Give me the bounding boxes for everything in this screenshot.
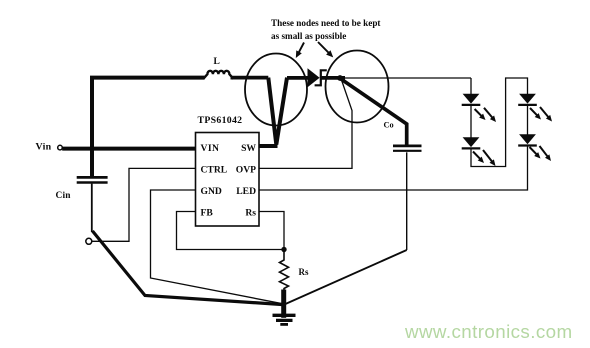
callout text — [271, 18, 381, 41]
wire: diode cathode to node — [321, 76, 345, 80]
wire: CTRL pin loop to open terminal — [92, 168, 196, 241]
wire: Rs pin to junction — [259, 212, 284, 250]
node junction dot — [337, 75, 343, 81]
svg-text:LED: LED — [236, 186, 256, 197]
wire: SW V loop — [268, 78, 287, 145]
wire: GND pin to ground — [151, 190, 284, 304]
wire: Co bottom drop — [406, 152, 408, 250]
svg-text:Cin: Cin — [56, 191, 72, 201]
wire: Cin bottom drop — [91, 184, 93, 232]
Vin terminal — [36, 141, 63, 152]
emphasis ellipse right (diode node) — [326, 51, 389, 123]
svg-text:These nodes need to be kept: These nodes need to be kept — [271, 18, 381, 28]
ground — [273, 290, 296, 325]
svg-text:Rs: Rs — [245, 208, 256, 219]
svg-text:www.cntronics.com: www.cntronics.com — [404, 321, 573, 342]
wire: node to Co (thick) — [341, 79, 407, 146]
open terminal circle — [86, 238, 92, 244]
capacitor Co — [384, 121, 422, 151]
arrow to SW loop node — [296, 43, 304, 59]
LED D3 — [462, 137, 481, 148]
resistor Rs — [280, 252, 309, 291]
svg-text:Co: Co — [384, 121, 394, 130]
wire: SW pin stub — [259, 144, 278, 148]
inductor L — [203, 57, 233, 79]
emphasis ellipse left (SW node) — [245, 54, 307, 126]
svg-text:VIN: VIN — [201, 143, 220, 154]
svg-text:SW: SW — [241, 143, 256, 154]
junction dot Rs — [281, 247, 286, 252]
wire: input rail riser — [92, 78, 205, 177]
LED D5 — [518, 134, 537, 145]
LED D3 emission arrows — [473, 150, 496, 166]
LED D5 emission arrows — [530, 146, 552, 161]
wire: node to LED string 1 top — [343, 77, 471, 79]
LED D4 — [518, 94, 537, 105]
LED D4 emission arrows — [530, 107, 552, 122]
wire: node to OVP pin — [259, 80, 352, 168]
wire: Vin to VIN pin — [62, 147, 195, 151]
svg-text:Rs: Rs — [299, 267, 309, 277]
IC U1 TPS61042 — [196, 115, 260, 226]
wire: Co to ground diagonal — [284, 250, 407, 305]
wire: rail V to diode — [287, 76, 308, 80]
wire: LED pin return line — [259, 145, 528, 190]
wire: rail inductor to SW V — [231, 76, 269, 80]
wire: LED string 1 mid — [470, 105, 472, 137]
svg-text:FB: FB — [201, 208, 214, 219]
diode D1 (schottky) — [308, 68, 327, 87]
svg-text:as small as possible: as small as possible — [271, 31, 346, 41]
wire: LED string 1 drop — [470, 78, 472, 94]
svg-text:Vin: Vin — [36, 141, 52, 152]
wire: FB pin loop — [177, 212, 285, 250]
arrow to diode node — [318, 42, 333, 57]
wire: LED string 1 bottom + riser + top link — [471, 78, 528, 167]
wire: Cin to ground (thick diagonal) — [93, 231, 284, 305]
svg-text:CTRL: CTRL — [201, 164, 228, 175]
svg-text:L: L — [214, 57, 220, 67]
LED D2 emission arrows — [475, 108, 496, 122]
LED D2 — [462, 94, 481, 105]
wire: LED string 2 mid — [527, 105, 529, 135]
capacitor Cin — [56, 177, 108, 200]
svg-text:OVP: OVP — [236, 164, 256, 175]
svg-text:GND: GND — [201, 186, 222, 197]
svg-text:TPS61042: TPS61042 — [198, 115, 243, 126]
